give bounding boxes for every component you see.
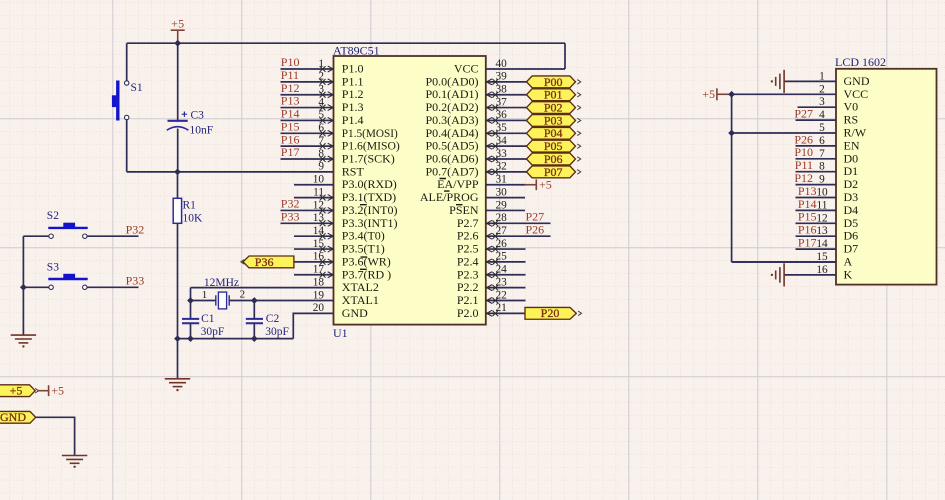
- ground GND port: [62, 456, 87, 464]
- port +5: [0, 385, 35, 397]
- junction R/W: [728, 130, 735, 137]
- LCD pin 7 stub: [796, 158, 837, 160]
- svg-text:11: 11: [817, 199, 828, 211]
- wire S1 to RST net: [126, 120, 128, 172]
- svg-text:13: 13: [816, 225, 828, 237]
- svg-text:D6: D6: [844, 229, 859, 243]
- capacitor C2: [246, 319, 263, 323]
- svg-text:P2.0: P2.0: [457, 306, 479, 320]
- pin 35 wire: [486, 132, 528, 134]
- resistor R1: [177, 172, 179, 198]
- svg-text:U1: U1: [333, 326, 348, 340]
- svg-text:12: 12: [313, 199, 325, 211]
- svg-text:16: 16: [816, 264, 828, 276]
- svg-text:15: 15: [313, 238, 325, 250]
- LCD pin 4 stub: [796, 119, 837, 121]
- pin 27 wire: [486, 235, 551, 237]
- ground LCD pin1: [776, 70, 784, 93]
- wire +5 rail to VCC: [127, 42, 565, 44]
- svg-text:34: 34: [496, 135, 508, 147]
- svg-text:17: 17: [313, 264, 325, 276]
- svg-text:22: 22: [496, 289, 508, 301]
- svg-text:2: 2: [819, 83, 825, 95]
- svg-text:GND: GND: [844, 74, 870, 88]
- svg-text:24: 24: [496, 264, 508, 276]
- port P02: [527, 102, 576, 114]
- wire GND port to ground: [36, 417, 75, 455]
- ground under R1: [165, 379, 190, 387]
- wire R1 to ground rail: [177, 223, 179, 338]
- svg-text:18: 18: [313, 276, 325, 288]
- LCD pin 8 stub: [796, 171, 837, 173]
- svg-text:31: 31: [496, 174, 507, 186]
- capacitor C1: [182, 319, 199, 323]
- svg-text:26: 26: [496, 238, 508, 250]
- svg-text:P17: P17: [798, 236, 817, 250]
- port P07: [527, 166, 576, 178]
- svg-text:P27: P27: [526, 209, 545, 223]
- pin 26 stub: [486, 248, 526, 250]
- LCD pin 9 stub: [796, 184, 837, 186]
- svg-text:28: 28: [496, 212, 508, 224]
- LCD pin 15 wire: [732, 261, 836, 263]
- svg-text:D4: D4: [844, 203, 859, 217]
- junction S2/S3: [20, 284, 27, 291]
- svg-text:D5: D5: [844, 216, 859, 230]
- pin 7 wire: [281, 145, 334, 147]
- pin 10 stub: [294, 184, 334, 186]
- port P01: [527, 89, 576, 101]
- svg-text:+5: +5: [539, 178, 552, 192]
- pin 8 wire: [281, 158, 334, 160]
- svg-text:30pF: 30pF: [265, 326, 289, 338]
- svg-text:C1: C1: [201, 313, 215, 325]
- svg-text:+5: +5: [702, 87, 715, 101]
- port P36: [243, 256, 294, 268]
- svg-text:21: 21: [496, 302, 507, 314]
- pin 2 wire: [281, 81, 334, 83]
- junction C2 rail: [251, 335, 258, 342]
- port P03: [527, 115, 576, 127]
- port GND: [0, 411, 36, 423]
- LCD pin 2 wire: [732, 93, 836, 95]
- svg-text:C3: C3: [191, 110, 205, 122]
- svg-text:P07: P07: [544, 165, 563, 179]
- svg-text:P26: P26: [794, 132, 813, 146]
- svg-text:P20: P20: [541, 306, 560, 320]
- svg-text:11: 11: [313, 186, 324, 198]
- svg-text:8: 8: [819, 161, 825, 173]
- pin 24 stub: [486, 274, 526, 276]
- svg-text:P26: P26: [526, 222, 545, 236]
- LCD pin 13 stub: [796, 235, 837, 237]
- svg-text:RS: RS: [844, 113, 859, 127]
- svg-text:GND: GND: [342, 306, 368, 320]
- wire VCC pin 40: [486, 68, 565, 70]
- svg-text:+5: +5: [10, 384, 23, 398]
- svg-text:10nF: 10nF: [190, 124, 214, 136]
- svg-text:30pF: 30pF: [201, 326, 225, 338]
- pin 25 stub: [486, 261, 526, 263]
- svg-text:P15: P15: [798, 210, 817, 224]
- svg-text:P14: P14: [798, 197, 817, 211]
- wire S3 left: [23, 286, 48, 288]
- pin 13 wire: [281, 222, 334, 224]
- svg-text:12: 12: [816, 212, 828, 224]
- wire crystal pin2: [229, 299, 254, 301]
- svg-text:P12: P12: [794, 171, 813, 185]
- svg-text:25: 25: [496, 251, 508, 263]
- pin 15 stub: [294, 248, 334, 250]
- pin 30 stub: [486, 197, 525, 199]
- svg-text:32: 32: [496, 161, 508, 173]
- wire XTAL1 pin 19: [254, 299, 333, 301]
- svg-text:1: 1: [819, 70, 825, 82]
- power +5 symbol: [38, 385, 48, 396]
- pin 36 wire: [486, 119, 528, 121]
- wire down to S1: [126, 43, 128, 81]
- wire ground rail: [178, 338, 294, 340]
- svg-text:+5: +5: [171, 16, 184, 30]
- svg-text:40: 40: [496, 58, 508, 70]
- pin 23 stub: [486, 287, 526, 289]
- svg-text:36: 36: [496, 109, 508, 121]
- IC U1 AT89C51 body: [334, 56, 486, 325]
- svg-text:10K: 10K: [183, 212, 204, 224]
- ground S2/S3: [11, 335, 36, 343]
- svg-text:EN: EN: [844, 138, 860, 152]
- svg-text:3: 3: [819, 96, 825, 108]
- svg-text:D1: D1: [844, 164, 859, 178]
- svg-text:C2: C2: [266, 313, 280, 325]
- junction LCD VCC: [728, 91, 735, 98]
- svg-text:19: 19: [313, 289, 325, 301]
- LCD pin 14 stub: [796, 248, 837, 250]
- svg-text:10: 10: [816, 187, 828, 199]
- junction crystal right: [251, 297, 258, 304]
- wire XTAL2 pin 18: [191, 287, 334, 289]
- svg-text:27: 27: [496, 225, 508, 237]
- switch S1: [112, 81, 129, 121]
- pin 38 wire: [486, 94, 528, 96]
- capacitor C3: [177, 43, 179, 120]
- wire down crystal left: [190, 288, 192, 319]
- svg-text:K: K: [844, 267, 853, 281]
- svg-text:VCC: VCC: [844, 87, 869, 101]
- svg-text:P33: P33: [126, 274, 145, 288]
- junction crystal left: [187, 297, 194, 304]
- svg-text:23: 23: [496, 276, 508, 288]
- ground LCD pin16: [776, 263, 784, 286]
- pin 17 stub: [294, 274, 334, 276]
- pin 28 wire: [486, 222, 551, 224]
- svg-text:1: 1: [202, 289, 208, 301]
- pin 37 wire: [486, 107, 528, 109]
- port P00: [527, 76, 576, 88]
- svg-text:2: 2: [240, 289, 246, 301]
- svg-text:P16: P16: [798, 223, 817, 237]
- LCD pin 3 stub: [798, 106, 837, 108]
- svg-text:D2: D2: [844, 177, 859, 191]
- crystal Y1 12MHz: [216, 295, 229, 305]
- svg-text:D7: D7: [844, 242, 859, 256]
- LCD pin 6 stub: [796, 145, 837, 147]
- overlines: [360, 179, 463, 270]
- port P20: [525, 307, 576, 319]
- wire S2 to P32: [87, 235, 138, 237]
- svg-text:10: 10: [313, 174, 325, 186]
- svg-text:S3: S3: [47, 261, 59, 273]
- svg-text:P33: P33: [281, 209, 300, 223]
- svg-text:16: 16: [313, 251, 325, 263]
- pin 4 wire: [281, 107, 334, 109]
- svg-text:D0: D0: [844, 151, 859, 165]
- pin 33 wire: [486, 158, 528, 160]
- pin 32 wire: [486, 171, 528, 173]
- svg-text:4: 4: [819, 109, 825, 121]
- LCD pin 10 stub: [796, 197, 837, 199]
- junction ground rail: [174, 335, 181, 342]
- wire down to S3 node: [22, 236, 24, 287]
- pin 16 wire: [294, 261, 334, 263]
- switch S2: [48, 223, 87, 239]
- svg-text:20: 20: [313, 302, 325, 314]
- LCD pin 16 wire: [784, 274, 836, 276]
- pin 29 stub: [486, 209, 525, 211]
- LCD pin 5 wire: [732, 132, 836, 134]
- wire S3 to P33: [87, 286, 138, 288]
- power +5 (top): [171, 30, 185, 43]
- wire to ground: [177, 339, 179, 379]
- junction +5 rail: [174, 40, 181, 47]
- svg-text:39: 39: [496, 71, 508, 83]
- svg-text:P36: P36: [255, 255, 274, 269]
- svg-text:6: 6: [819, 135, 825, 147]
- svg-text:5: 5: [819, 122, 825, 134]
- junction RST node: [174, 168, 181, 175]
- pin 39 wire: [486, 81, 528, 83]
- svg-text:33: 33: [496, 148, 508, 160]
- wire to ground: [22, 287, 24, 335]
- pin 21 wire: [486, 312, 525, 314]
- svg-text:9: 9: [819, 174, 825, 186]
- pin 3 wire: [281, 94, 334, 96]
- svg-text:AT89C51: AT89C51: [333, 43, 380, 57]
- LCD pin 12 stub: [796, 222, 837, 224]
- pin 22 stub: [486, 299, 526, 301]
- svg-text:S1: S1: [131, 82, 143, 94]
- svg-text:R/W: R/W: [844, 126, 867, 140]
- wire RST pin 9: [127, 171, 334, 173]
- port P04: [527, 127, 576, 139]
- svg-text:14: 14: [313, 225, 325, 237]
- svg-text:A: A: [844, 255, 853, 269]
- svg-text:38: 38: [496, 84, 508, 96]
- svg-text:V0: V0: [844, 100, 859, 114]
- wire S2 left: [23, 235, 48, 237]
- svg-text:P32: P32: [126, 223, 145, 237]
- pin 1 wire: [281, 68, 334, 70]
- wire +5 down to A: [731, 94, 733, 262]
- svg-text:P27: P27: [794, 107, 813, 121]
- wire GND pin 20: [293, 313, 333, 338]
- switch S3: [48, 274, 87, 290]
- svg-text:R1: R1: [183, 199, 197, 211]
- svg-text:D3: D3: [844, 190, 859, 204]
- svg-text:13: 13: [313, 212, 325, 224]
- svg-text:P10: P10: [794, 145, 813, 159]
- power +5 EA/VPP: [525, 179, 537, 190]
- svg-text:29: 29: [496, 199, 508, 211]
- svg-text:9: 9: [318, 161, 324, 173]
- pin 12 wire: [281, 209, 334, 211]
- svg-text:14: 14: [816, 238, 828, 250]
- svg-text:P11: P11: [795, 158, 813, 172]
- svg-text:LCD 1602: LCD 1602: [835, 55, 886, 69]
- pin 34 wire: [486, 145, 528, 147]
- svg-text:+5: +5: [51, 384, 64, 398]
- pin 5 wire: [281, 119, 334, 121]
- pin 11 stub: [294, 197, 334, 199]
- port P05: [527, 140, 576, 152]
- svg-text:12MHz: 12MHz: [204, 277, 239, 289]
- svg-text:37: 37: [496, 96, 508, 108]
- LCD pin 1 wire: [784, 80, 836, 82]
- svg-text:S2: S2: [47, 210, 59, 222]
- svg-text:7: 7: [819, 148, 825, 160]
- junction C1 rail: [187, 335, 194, 342]
- LCD +5 power: [717, 88, 732, 100]
- svg-text:35: 35: [496, 122, 508, 134]
- svg-text:P13: P13: [798, 184, 817, 198]
- port P06: [527, 153, 576, 165]
- pin 6 wire: [281, 132, 334, 134]
- svg-text:GND: GND: [0, 410, 26, 424]
- pin 31 stub: [486, 184, 526, 186]
- LCD pin 11 stub: [796, 209, 837, 211]
- wire crystal pin1: [191, 299, 216, 301]
- wire to pin 15: [732, 261, 836, 263]
- svg-text:30: 30: [496, 186, 508, 198]
- wire corner down to pin40: [564, 43, 566, 69]
- pin 14 stub: [294, 235, 334, 237]
- svg-text:P17: P17: [281, 145, 300, 159]
- LCD 1602 box: [836, 69, 937, 285]
